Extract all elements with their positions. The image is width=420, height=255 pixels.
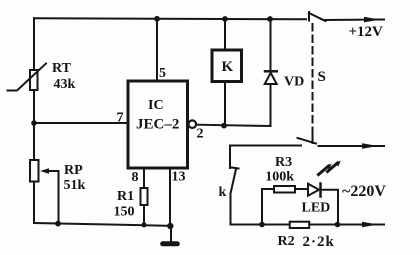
node: junction of pin-5 wire on top bus: [154, 16, 160, 22]
svg-text:150: 150: [114, 205, 135, 220]
node: junction of diode VD wire on top bus: [267, 16, 273, 22]
switch contact k: blade: [231, 169, 237, 194]
wire: pin 8 lead down through R1: [143, 168, 145, 225]
svg-text:R3: R3: [275, 155, 292, 170]
potentiometer RP body: [30, 160, 39, 182]
wire: left vertical rail (through RT and RP): [33, 18, 35, 223]
node: junction RT/RP/pin7 on left rail: [31, 120, 37, 126]
wire: +12V output with arrow: [326, 19, 385, 22]
node: K bottom junction on pin-2 wire: [221, 123, 227, 129]
wire: R3 to LED anode: [295, 188, 308, 190]
svg-text:43k: 43k: [54, 77, 76, 92]
wire: 220V live output with arrow: [319, 145, 385, 147]
svg-text:R2: R2: [278, 234, 295, 249]
wire: LED cathode to right riser down to bottom rail: [321, 190, 339, 225]
svg-text:7: 7: [117, 111, 124, 126]
wire: R3 left lead: [262, 188, 274, 190]
IC U1 JEC-2 box: [128, 81, 188, 168]
svg-text:51k: 51k: [64, 178, 86, 193]
node: junction of relay K wire on top bus: [222, 16, 228, 22]
switch contact k: tick: [232, 168, 239, 169]
switch contact k: top lead: [229, 146, 231, 169]
node: R3 branch junction on bottom rail: [259, 222, 265, 228]
wire: pin 7 horizontal from left rail to IC: [34, 122, 128, 124]
svg-text:+12V: +12V: [349, 24, 384, 40]
switch S lower tick: [312, 134, 314, 144]
svg-text:8: 8: [132, 170, 139, 185]
resistor R3 body: [274, 186, 295, 193]
dashed link of ganged switch S: [312, 24, 314, 133]
diode VD triangle: [265, 73, 277, 84]
svg-text:13: 13: [172, 170, 186, 185]
wire: pin 5 from top bus into IC: [156, 19, 158, 82]
svg-text:~220V: ~220V: [342, 183, 386, 200]
svg-text:2: 2: [197, 127, 204, 142]
resistor R2 body: [290, 222, 310, 228]
resistor R1 body: [141, 188, 148, 205]
switch S lower blade: [298, 138, 317, 144]
wire: pin 2 to relay K and VD bottoms: [196, 125, 270, 126]
svg-text:RP: RP: [64, 163, 83, 178]
LED cathode bar: [319, 184, 322, 197]
svg-text:5: 5: [159, 66, 166, 81]
pin 2 output bubble of IC: [189, 120, 197, 128]
relay K box: [212, 50, 242, 82]
node: LED cathode branch junction on bottom rail: [335, 222, 341, 228]
thermistor RT diagonal stroke with foot: [8, 64, 47, 91]
svg-text:k: k: [219, 185, 227, 200]
wire: top bus from left corner to switch S pole: [34, 18, 306, 19]
svg-text:RT: RT: [52, 61, 72, 76]
svg-text:IC: IC: [148, 98, 164, 113]
LED triangle: [308, 184, 319, 196]
wire: pin 13 lead down to ground rail: [169, 168, 171, 226]
node: R1 bottom junction: [141, 222, 146, 227]
diode VD cathode bar: [265, 70, 277, 73]
svg-text:S: S: [318, 69, 326, 85]
ground symbol: [170, 226, 172, 242]
wire: bottom 220V neutral rail with arrow: [231, 224, 385, 226]
svg-text:2·2k: 2·2k: [303, 234, 335, 250]
wire: relay K bottom lead: [224, 82, 226, 126]
wire: R3/LED branch left riser: [261, 189, 263, 225]
svg-text:R1: R1: [117, 189, 134, 204]
node: pin 13 / ground junction: [167, 223, 173, 229]
LED light emission arrows: [319, 166, 329, 175]
svg-text:LED: LED: [302, 201, 331, 216]
switch S upper blade: [309, 13, 326, 21]
node: RP wiper junction on bottom rail: [55, 221, 61, 227]
thermistor RT body: [30, 70, 38, 90]
wire: relay K top lead: [224, 19, 226, 50]
diode VD vertical leads: [270, 19, 272, 70]
svg-text:K: K: [222, 59, 234, 75]
wire: left bottom rail: [34, 223, 171, 226]
switch contact k: bottom lead: [230, 194, 232, 225]
svg-text:JEC–2: JEC–2: [136, 117, 179, 133]
potentiometer RP wiper arrow and lead down to bottom rail: [45, 170, 59, 172]
switch S upper pole tick: [308, 12, 310, 21]
svg-text:VD: VD: [284, 75, 304, 90]
switch S lower pole: incoming 220V wire: [230, 145, 301, 147]
svg-text:100k: 100k: [265, 170, 294, 185]
